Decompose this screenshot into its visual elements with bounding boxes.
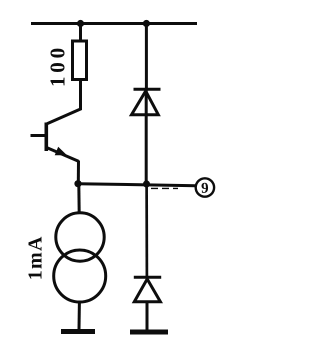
current source I1 circle lower bbox=[54, 250, 106, 302]
svg-text:9: 9 bbox=[201, 181, 209, 197]
node junction top-left bbox=[77, 20, 84, 27]
diode D1 cathode bar bbox=[134, 88, 161, 91]
transistor Q1 emitter arrow bbox=[55, 147, 67, 156]
wire D2 to ground bbox=[146, 302, 149, 331]
wire rail to resistor bbox=[79, 24, 82, 42]
transistor Q1 emitter bbox=[47, 148, 79, 162]
diode D2 cathode bar bbox=[134, 276, 161, 279]
wire junction to current source bbox=[77, 184, 80, 214]
wire scan speckle bbox=[151, 187, 178, 189]
svg-text:100: 100 bbox=[46, 44, 70, 87]
ground right bbox=[130, 330, 168, 335]
wire mid to D2 bbox=[145, 184, 148, 277]
transistor Q1 base bar bbox=[44, 123, 48, 152]
terminal output bbox=[196, 178, 214, 196]
wire resistor to collector bbox=[47, 80, 81, 124]
node junction emitter bbox=[74, 180, 81, 187]
current source I1 circle upper bbox=[56, 213, 104, 261]
node junction mid-right bbox=[143, 180, 150, 187]
svg-text:1mA: 1mA bbox=[25, 235, 47, 280]
wire emitter down bbox=[77, 161, 80, 185]
wire D1 through bbox=[145, 89, 148, 184]
wire right branch upper bbox=[145, 24, 148, 90]
node junction top-right bbox=[143, 20, 150, 27]
resistor R1 body bbox=[73, 41, 87, 80]
diode D1 triangle bbox=[132, 91, 159, 115]
wire source to ground bbox=[78, 302, 81, 330]
ground left bbox=[61, 329, 95, 334]
wire output rail bbox=[78, 184, 196, 186]
transistor Q1 base lead bbox=[31, 134, 47, 137]
diode D2 triangle bbox=[134, 279, 160, 302]
wire top rail bbox=[31, 22, 197, 25]
